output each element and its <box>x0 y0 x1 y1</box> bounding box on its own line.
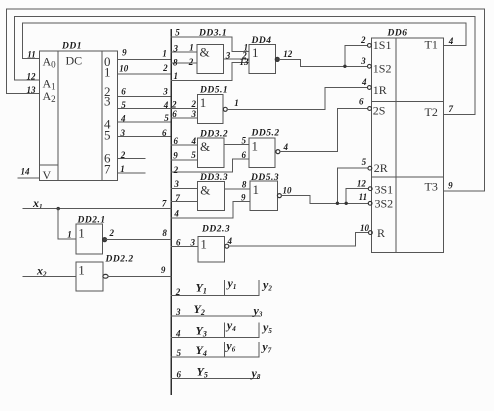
svg-text:2R: 2R <box>374 161 388 175</box>
svg-text:1: 1 <box>120 164 125 174</box>
svg-text:8: 8 <box>242 180 247 190</box>
svg-text:1: 1 <box>252 45 259 60</box>
svg-text:13: 13 <box>240 57 250 67</box>
wire branch to 1S1 <box>345 45 368 66</box>
svg-text:3: 3 <box>120 128 126 138</box>
svg-text:1: 1 <box>162 48 167 58</box>
svg-text:1: 1 <box>173 71 178 81</box>
svg-text:4: 4 <box>361 77 367 87</box>
DD2.3 output inversion bubble <box>225 244 229 248</box>
svg-text:10: 10 <box>283 185 293 195</box>
svg-text:1: 1 <box>189 43 194 53</box>
wire DD5.2 output 4 to 2S <box>280 109 368 152</box>
bus numbers 3 7 <box>173 179 180 203</box>
DD6 input pin numbers <box>357 35 370 233</box>
wire feedback T3 output 9 to A2 pin 13 <box>6 9 484 191</box>
DD6 input labels <box>373 38 393 240</box>
and gate DD3.3 <box>197 182 224 211</box>
wire input x2 to DD2.2 <box>23 275 76 277</box>
svg-text:2: 2 <box>190 99 196 109</box>
wire branch to 2R <box>337 168 367 203</box>
DD5.2 pin numbers 5 6 4 <box>242 136 289 161</box>
svg-text:1: 1 <box>78 225 85 240</box>
svg-text:1: 1 <box>67 229 72 239</box>
wire bus 6 to DD5.1 pin 3 <box>171 117 197 119</box>
inverter DD2.1 <box>76 224 103 254</box>
wire DD3.1 output to DD4 pin 2 <box>224 58 250 60</box>
svg-text:Y3: Y3 <box>196 324 207 339</box>
svg-text:T1: T1 <box>425 37 438 51</box>
svg-text:y3: y3 <box>252 304 263 319</box>
svg-text:y2: y2 <box>261 278 272 293</box>
DD5.1 output inversion bubble <box>223 107 227 111</box>
wire bus 8 to DD3.1 pin 2 <box>171 62 197 64</box>
svg-text:3: 3 <box>360 56 366 66</box>
svg-text:10: 10 <box>360 223 370 233</box>
wire DD1 output 6 pin 2 unconnected <box>118 157 145 159</box>
Y4 branch ticks <box>224 343 259 358</box>
svg-text:5: 5 <box>242 136 247 146</box>
or gate DD4 <box>249 44 275 73</box>
wire bus 2 to DD5.2 pin 6 <box>171 159 249 172</box>
trigger block DD6 <box>372 38 444 253</box>
svg-text:5: 5 <box>176 348 181 358</box>
svg-text:y6: y6 <box>224 339 235 354</box>
svg-text:4: 4 <box>448 36 454 46</box>
svg-text:DD4: DD4 <box>251 36 272 46</box>
svg-text:9: 9 <box>241 193 246 203</box>
svg-text:DD2.1: DD2.1 <box>77 216 106 226</box>
svg-text:5: 5 <box>164 113 169 123</box>
decoder DD1 <box>40 51 118 180</box>
svg-text:T2: T2 <box>425 105 438 119</box>
wire DD1 pin 14 V input <box>18 177 40 179</box>
svg-text:1S1: 1S1 <box>373 38 392 52</box>
svg-text:R: R <box>377 226 385 240</box>
and gate DD3.1 <box>197 44 224 73</box>
svg-text:DD5.3: DD5.3 <box>250 173 279 183</box>
DD1 output pin numbers 9 10 6 5 4 3 2 1 <box>119 48 129 175</box>
bus numbers 6 9 <box>173 136 178 161</box>
DD5.3 pin numbers 8 9 10 <box>241 180 292 203</box>
svg-text:8: 8 <box>162 228 167 238</box>
svg-text:Y2: Y2 <box>194 302 205 317</box>
svg-text:2S: 2S <box>373 103 386 117</box>
Y3 branch ticks <box>224 323 259 337</box>
svg-text:3: 3 <box>175 307 181 317</box>
svg-text:3: 3 <box>190 237 196 247</box>
wire bus 4 to DD5.3 pin 9 <box>171 201 250 217</box>
svg-text:9: 9 <box>448 181 453 191</box>
wire DD2.2 output to bus 9 <box>108 275 171 277</box>
DD2.3 pin numbers 3 4 <box>190 236 233 247</box>
wire bus 5 to DD4 pin 1 <box>171 37 249 52</box>
svg-text:1: 1 <box>200 237 207 252</box>
svg-text:8: 8 <box>173 57 178 67</box>
svg-text:2: 2 <box>173 165 179 175</box>
wire x1 branch to DD2.1 pin 1 <box>58 209 76 239</box>
DD3.1 pin numbers 1 2 3 <box>188 43 231 68</box>
svg-text:V: V <box>43 168 52 182</box>
svg-text:1: 1 <box>104 65 111 80</box>
inverter DD2.2 <box>76 262 103 291</box>
svg-text:7: 7 <box>175 193 180 203</box>
wire bus 1 to DD4 pin 13 <box>171 63 249 81</box>
svg-text:DC: DC <box>66 54 83 68</box>
DD4 pin numbers 1 2 13 12 <box>240 43 293 67</box>
wire bus 6 to DD2.3 pin 3 <box>171 245 198 247</box>
svg-text:9: 9 <box>161 265 166 275</box>
wire DD5.1 output 1 to 1R <box>227 88 367 110</box>
or gate DD5.2 <box>249 138 275 168</box>
wire Y4 output bus 5 <box>171 356 259 358</box>
svg-text:9: 9 <box>173 150 178 160</box>
svg-text:&: & <box>200 45 210 60</box>
svg-text:DD6: DD6 <box>387 29 408 39</box>
svg-text:DD3.1: DD3.1 <box>198 29 227 39</box>
junction node 2R branch <box>336 202 339 205</box>
svg-text:DD3.2: DD3.2 <box>199 130 228 140</box>
svg-text:6: 6 <box>172 109 177 119</box>
DD2.2 output inversion bubble <box>103 274 108 278</box>
svg-text:y8: y8 <box>250 366 261 381</box>
DD4 output inversion bubble <box>275 57 279 61</box>
svg-text:&: & <box>200 182 210 197</box>
svg-text:3: 3 <box>190 109 196 119</box>
junction node 3S1 branch <box>345 202 348 205</box>
wire feedback T2 output 7 to A1 pin 12 <box>15 16 475 114</box>
inverter DD2.3 <box>198 236 225 261</box>
svg-text:5: 5 <box>104 128 111 143</box>
svg-text:7: 7 <box>104 162 111 177</box>
or gate DD5.1 <box>197 95 223 124</box>
and gate DD3.2 <box>197 138 224 167</box>
wire Y1 output bus 2 <box>171 295 259 297</box>
svg-text:4: 4 <box>282 142 288 152</box>
svg-text:2: 2 <box>360 35 366 45</box>
svg-text:11: 11 <box>359 192 368 202</box>
svg-text:2: 2 <box>175 287 181 297</box>
svg-text:2: 2 <box>188 57 194 67</box>
svg-text:13: 13 <box>27 85 37 95</box>
DD1 input labels A0 A1 A2 <box>43 55 57 105</box>
svg-text:6: 6 <box>242 150 247 160</box>
DD1 pin numbers 11 12 13 14 <box>21 50 37 177</box>
svg-text:14: 14 <box>21 167 31 177</box>
DD5.3 output inversion bubble <box>277 194 281 198</box>
svg-text:1R: 1R <box>373 83 387 97</box>
svg-text:2: 2 <box>120 150 126 160</box>
wire DD1 output 7 pin 1 unconnected <box>118 172 145 174</box>
wire feedback T1 output 4 to A0 pin 11 <box>22 23 466 58</box>
svg-text:1: 1 <box>78 262 85 277</box>
svg-text:2: 2 <box>171 99 177 109</box>
svg-text:DD3.3: DD3.3 <box>199 173 228 183</box>
svg-text:3: 3 <box>162 87 168 97</box>
svg-text:6: 6 <box>173 136 178 146</box>
svg-text:11: 11 <box>27 50 36 60</box>
DD5.1 pin numbers 2 3 1 <box>190 98 238 119</box>
svg-text:1S2: 1S2 <box>373 62 392 76</box>
wire DD1 output 0 pin 9 to bus 1 <box>118 59 172 61</box>
svg-text:5: 5 <box>191 150 196 160</box>
svg-text:10: 10 <box>119 64 129 74</box>
DD2.1 output inversion bubble <box>103 238 107 242</box>
DD5.2 output inversion bubble <box>276 150 280 154</box>
svg-text:T3: T3 <box>425 180 438 194</box>
wire DD2.1 output 2 to bus 8 <box>107 239 172 241</box>
Y3 labels <box>175 318 272 339</box>
wire bus 3 to DD3.3 pin 1 <box>171 188 197 190</box>
DD6 input inversion circles <box>368 44 373 235</box>
wire DD1 output 5 pin 3 to bus 6 <box>118 136 172 138</box>
svg-text:3S2: 3S2 <box>375 196 394 210</box>
svg-text:4: 4 <box>120 113 126 123</box>
svg-text:6: 6 <box>176 237 181 247</box>
wire DD5.3 output 10 to 3S2 <box>281 196 368 204</box>
svg-text:Y1: Y1 <box>196 281 207 296</box>
DD3.2 pin numbers 4 5 <box>191 136 197 160</box>
svg-text:7: 7 <box>449 104 454 114</box>
bus numbers 3 8 1 right side <box>172 44 178 81</box>
or gate DD5.3 <box>250 181 277 210</box>
wire DD1 output 4 pin 4 to bus 5 <box>118 121 172 123</box>
wire Y5 output bus 6 <box>171 377 259 379</box>
svg-text:1: 1 <box>200 95 207 110</box>
svg-text:5: 5 <box>175 27 180 37</box>
svg-text:3: 3 <box>104 94 111 109</box>
svg-text:6: 6 <box>176 370 181 380</box>
svg-text:2: 2 <box>108 228 114 238</box>
svg-text:12: 12 <box>357 178 367 188</box>
Y5 labels <box>176 364 260 381</box>
wire Y3 output bus 4 <box>171 336 259 338</box>
svg-text:3: 3 <box>173 179 179 189</box>
svg-text:y5: y5 <box>261 320 272 335</box>
svg-text:7: 7 <box>162 198 167 208</box>
svg-text:6: 6 <box>359 96 364 106</box>
svg-text:y4: y4 <box>225 318 236 333</box>
svg-text:y1: y1 <box>226 276 237 291</box>
svg-text:&: & <box>200 139 210 154</box>
svg-text:5: 5 <box>362 157 367 167</box>
svg-text:Y4: Y4 <box>196 343 207 358</box>
svg-text:y7: y7 <box>260 340 271 355</box>
svg-text:2: 2 <box>162 63 168 73</box>
Y2 labels <box>175 302 263 319</box>
svg-text:12: 12 <box>27 72 37 82</box>
bus group line <box>170 30 172 394</box>
bus left side wire numbers 1-9 <box>161 48 169 274</box>
svg-text:9: 9 <box>122 48 127 58</box>
DD6 section labels T1 T2 T3 <box>425 37 438 193</box>
junction node at 1S2 branch <box>343 65 346 68</box>
svg-text:A0: A0 <box>43 55 57 70</box>
Y1 labels <box>175 276 273 297</box>
wire DD3.3 output to DD5.3 pin 8 <box>225 188 250 190</box>
svg-text:5: 5 <box>121 100 126 110</box>
wire DD3.2 output to DD5.2 pin 5 <box>224 144 249 146</box>
DD1 output digits 0-7 <box>104 54 111 177</box>
svg-text:6: 6 <box>162 128 167 138</box>
svg-text:DD5.1: DD5.1 <box>199 86 228 96</box>
Y1 branch ticks <box>224 281 259 296</box>
wire bus 7 to DD3.3 pin 2 <box>171 201 197 203</box>
DD6 output pin numbers 4 7 9 <box>448 36 454 191</box>
svg-text:6: 6 <box>121 87 126 97</box>
wire input x1 to bus 7 <box>23 208 171 210</box>
wire bus 3 to DD3.1 pin 1 <box>171 51 197 53</box>
wire Y2 output bus 3 <box>171 315 259 317</box>
wire branch to 3S1 <box>346 189 368 204</box>
svg-text:1: 1 <box>252 138 259 153</box>
junction node x1 branch <box>57 207 60 210</box>
svg-text:4: 4 <box>175 328 181 338</box>
Y4 labels <box>176 339 271 359</box>
wire DD2.3 output 4 to R input <box>229 233 368 247</box>
svg-text:3: 3 <box>172 44 178 54</box>
svg-text:DD2.2: DD2.2 <box>105 254 134 264</box>
svg-text:DD2.3: DD2.3 <box>201 225 230 235</box>
svg-text:Y5: Y5 <box>197 364 208 379</box>
svg-text:DD5.2: DD5.2 <box>251 129 280 139</box>
svg-text:1: 1 <box>234 98 239 108</box>
wire bus 6 to DD3.2 pin 4 <box>171 144 197 146</box>
svg-text:3S1: 3S1 <box>375 182 394 196</box>
wire bus 9 to DD3.2 pin 5 <box>171 159 197 161</box>
bus numbers 2 6 <box>171 99 177 119</box>
wire DD4 output 12 to 1S1 and 1S2 <box>279 59 367 66</box>
svg-text:1: 1 <box>253 182 260 197</box>
svg-text:DD1: DD1 <box>61 42 82 52</box>
svg-text:12: 12 <box>283 49 293 59</box>
wire DD1 output 3 pin 5 to bus 4 <box>118 108 172 110</box>
svg-text:4: 4 <box>191 136 197 146</box>
svg-text:4: 4 <box>173 209 179 219</box>
wire DD1 output 1 pin 10 to bus 2 <box>118 73 172 75</box>
wire bus 2 to DD5.1 pin 2 <box>171 108 197 110</box>
DD2.1 pin numbers 1 2 <box>67 228 114 239</box>
svg-text:4: 4 <box>163 100 169 110</box>
wire DD1 output 2 pin 6 to bus 3 <box>118 96 172 98</box>
